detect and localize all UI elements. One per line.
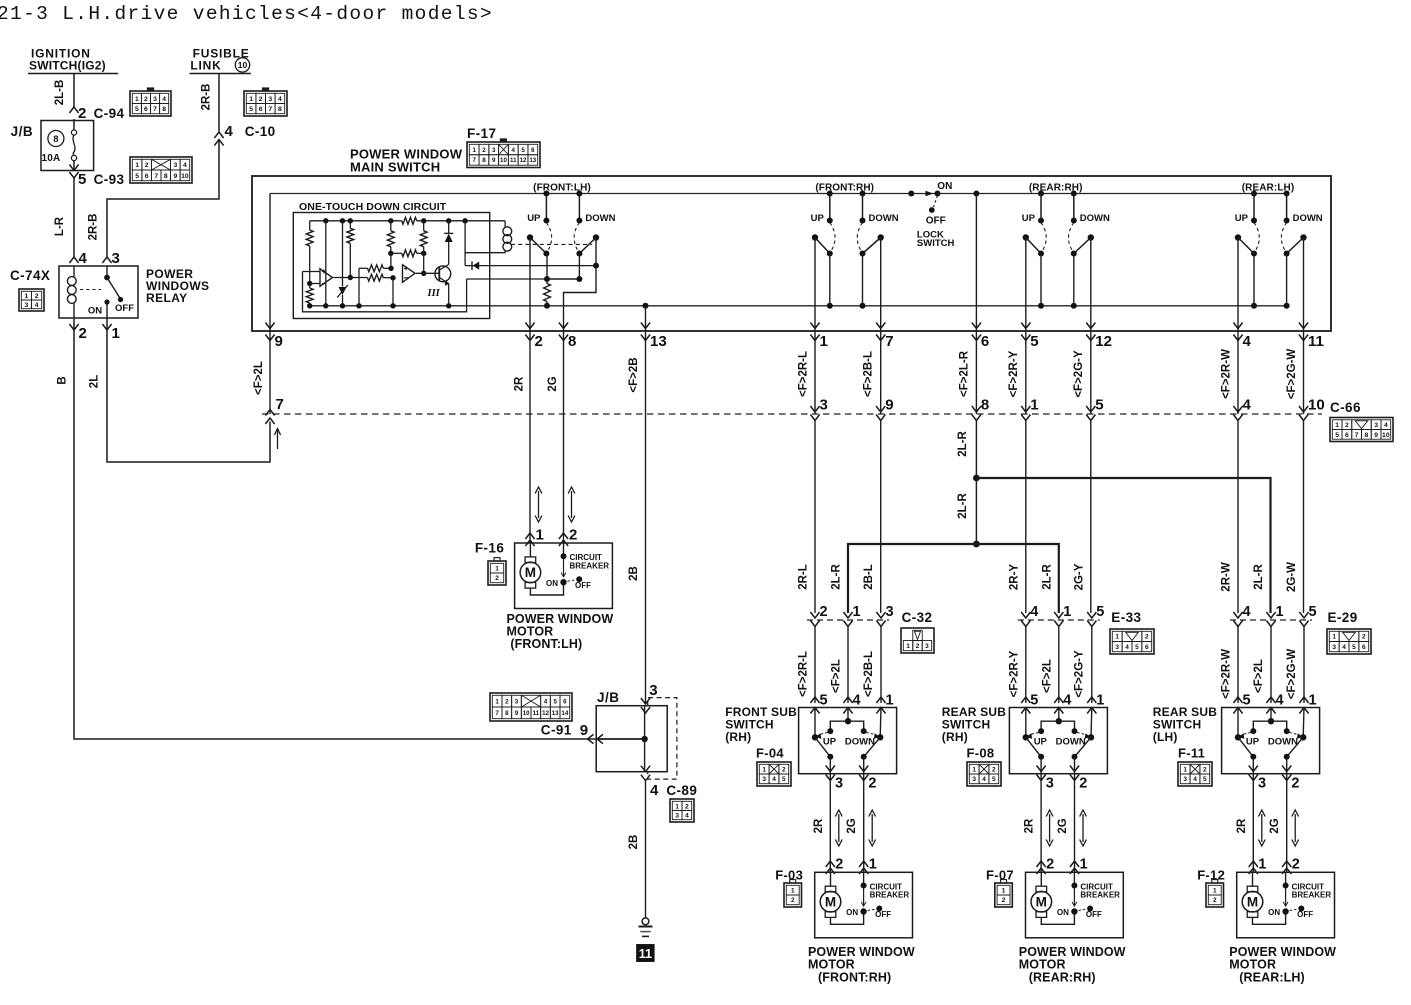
main switch pin 11 (1299, 323, 1308, 329)
svg-text:8: 8 (278, 106, 282, 113)
svg-text:11: 11 (510, 157, 517, 164)
svg-text:<F>2R-W: <F>2R-W (1221, 349, 1233, 399)
svg-text:<F>2G-Y: <F>2G-Y (1074, 650, 1086, 698)
junction block J/B (fuse box) (41, 121, 94, 171)
svg-text:ON: ON (937, 181, 952, 192)
svg-text:2L: 2L (89, 375, 101, 388)
svg-text:8: 8 (482, 157, 486, 164)
svg-text:6: 6 (531, 147, 535, 154)
svg-text:OFF: OFF (1297, 910, 1313, 919)
svg-text:9: 9 (885, 397, 893, 414)
svg-text:2L-B: 2L-B (54, 80, 66, 106)
wires sub switch to motor (front RH) (829, 785, 831, 872)
svg-text:(REAR:RH): (REAR:RH) (1029, 971, 1096, 985)
svg-text:7: 7 (153, 106, 157, 113)
connector C-66 pin 5 (1086, 406, 1095, 412)
connector F-16 pin 2 (559, 533, 568, 539)
svg-text:2: 2 (1145, 634, 1149, 641)
svg-text:5: 5 (249, 106, 253, 113)
wire segment x=815 (C-66 to door connector) (814, 421, 816, 614)
resistor R8 (right column) (423, 221, 425, 231)
svg-text:2G-Y: 2G-Y (1074, 563, 1086, 590)
resistor R6 (mid column) (390, 221, 392, 231)
svg-text:2B-L: 2B-L (863, 564, 875, 590)
feed line (lock switch bus) inside main switch (270, 193, 1287, 195)
relay coil (73, 266, 75, 277)
svg-text:4: 4 (1030, 604, 1038, 620)
svg-text:5: 5 (1095, 397, 1103, 414)
svg-text:13: 13 (650, 333, 667, 350)
svg-text:<F>2G-W: <F>2G-W (1286, 349, 1298, 400)
relay pin 2 (69, 324, 78, 330)
svg-text:<F>2L: <F>2L (253, 361, 265, 395)
svg-text:M: M (825, 895, 836, 910)
svg-text:6: 6 (1345, 432, 1349, 439)
svg-text:BREAKER: BREAKER (570, 561, 610, 570)
svg-text:OFF: OFF (875, 910, 891, 919)
svg-text:5: 5 (553, 698, 557, 705)
wire rear-RH left pivot to pin 5 (1025, 238, 1027, 332)
svg-text:2G-W: 2G-W (1286, 562, 1298, 592)
svg-text:4: 4 (1342, 644, 1346, 651)
svg-text:OFF: OFF (1086, 910, 1102, 919)
connector F-04 pin block (757, 762, 791, 786)
svg-text:E-33: E-33 (1111, 610, 1141, 625)
svg-text:ONE-TOUCH DOWN CIRCUIT: ONE-TOUCH DOWN CIRCUIT (299, 201, 447, 213)
wire segment x=848 (door connector to sub switch) (847, 627, 849, 704)
svg-text:6: 6 (563, 698, 567, 705)
svg-text:1: 1 (906, 643, 910, 650)
svg-text:2: 2 (1292, 857, 1300, 873)
svg-text:3: 3 (972, 776, 976, 783)
svg-text:1: 1 (762, 766, 766, 773)
svg-text:10: 10 (1382, 432, 1390, 439)
svg-text:1: 1 (25, 293, 29, 300)
svg-text:<F>2B-L: <F>2B-L (863, 351, 875, 397)
svg-text:3: 3 (112, 250, 120, 267)
wire L-R from J/B to relay (73, 178, 75, 257)
main switch pin 4 (1233, 323, 1242, 329)
svg-text:DOWN: DOWN (845, 737, 875, 748)
connector C-66 pin 7 (265, 410, 274, 416)
otd top rail (310, 220, 402, 222)
svg-text:2L-R: 2L-R (1253, 564, 1265, 590)
wire segment x=976.4 (main switch to C-66) (975, 331, 977, 414)
svg-text:ON: ON (88, 306, 102, 317)
main switch pin 5 (1021, 323, 1030, 329)
svg-text:2: 2 (1291, 776, 1299, 792)
wire 2L-R middle segment (975, 478, 977, 544)
svg-text:10: 10 (523, 710, 530, 717)
motor direction arrow (571, 491, 573, 518)
svg-text:1: 1 (1258, 857, 1266, 873)
svg-text:<F>2G-Y: <F>2G-Y (1073, 350, 1085, 398)
svg-text:6: 6 (1145, 644, 1149, 651)
svg-text:<F>2R-Y: <F>2R-Y (1008, 350, 1020, 397)
switch front sub switch RH (810, 697, 819, 703)
svg-text:(FRONT:RH): (FRONT:RH) (818, 971, 891, 985)
diode D1 (collector) (448, 242, 450, 265)
svg-text:11: 11 (1308, 333, 1324, 350)
svg-text:C-89: C-89 (666, 783, 697, 798)
svg-text:ON: ON (1268, 908, 1280, 917)
wire front-LH UP wiper to resistor (546, 254, 548, 280)
wire segment x=881 (door connector to sub switch) (880, 627, 882, 704)
svg-text:8: 8 (162, 106, 166, 113)
one-touch down circuit box (293, 213, 489, 319)
svg-text:2R-Y: 2R-Y (1008, 564, 1020, 591)
mechanical link dashes (coil to switch) (511, 243, 592, 245)
svg-text:2G: 2G (547, 376, 559, 391)
main switch pin 7 (876, 323, 885, 329)
resistor R9 (one-touch sense) (546, 279, 548, 284)
connector F-03 pin block (784, 883, 802, 907)
wire segment x=1304 (door connector to sub switch) (1303, 627, 1305, 704)
svg-text:DOWN: DOWN (585, 213, 615, 224)
svg-text:3: 3 (25, 302, 29, 309)
fuse 8 10A inside J/B (73, 119, 75, 130)
svg-text:UP: UP (1034, 737, 1048, 748)
svg-text:3: 3 (1332, 644, 1336, 651)
svg-text:2: 2 (259, 96, 263, 103)
junction inside J/B (641, 736, 647, 742)
wire segment x=1090.8 (main switch to C-66) (1090, 331, 1092, 414)
svg-text:2R-L: 2R-L (798, 564, 810, 590)
main switch pin 13 (641, 323, 650, 329)
connector C-66 pin 3 (810, 406, 819, 412)
junction pin13 on ground bus (643, 303, 649, 309)
svg-text:1: 1 (791, 887, 795, 894)
main switch pin 6 (972, 323, 981, 329)
svg-text:2B: 2B (628, 566, 640, 581)
relay coil L1 (one-touch) (504, 221, 506, 228)
wire U2 -input ground leg (392, 278, 394, 306)
svg-text:4: 4 (1125, 644, 1129, 651)
svg-text:3: 3 (675, 813, 679, 820)
svg-text:2: 2 (820, 604, 828, 620)
svg-text:2R: 2R (1236, 818, 1248, 833)
svg-text:F-16: F-16 (475, 541, 504, 556)
svg-text:5: 5 (521, 147, 525, 154)
svg-text:BREAKER: BREAKER (870, 891, 910, 900)
svg-text:1: 1 (886, 693, 894, 709)
svg-text:10A: 10A (42, 153, 61, 164)
svg-text:<F>2R-L: <F>2R-L (798, 651, 810, 697)
otd inner return rail (303, 272, 467, 312)
svg-text:1: 1 (536, 527, 544, 544)
relay pin 1 (102, 324, 111, 330)
svg-text:MOTOR: MOTOR (808, 958, 855, 972)
svg-text:UP: UP (1022, 213, 1036, 224)
svg-text:<F>2B: <F>2B (628, 357, 640, 392)
relay pin 4 (69, 257, 78, 263)
svg-text:DOWN: DOWN (869, 213, 899, 224)
svg-text:9: 9 (580, 722, 588, 739)
svg-text:LINK: LINK (190, 59, 221, 73)
wire 2R-B elbow to relay pin 3 (107, 140, 219, 258)
svg-text:14: 14 (561, 710, 568, 717)
wire R5 ground leg (358, 268, 360, 306)
svg-text:13: 13 (529, 157, 536, 164)
svg-text:F-08: F-08 (967, 746, 995, 761)
svg-text:2: 2 (868, 776, 876, 792)
wire front-LH right pivot to pin 8 (593, 263, 599, 269)
motor direction arrow (538, 491, 540, 518)
wire 2L-R distribution (front RH / rear RH) (848, 544, 1059, 613)
svg-text:3: 3 (1258, 776, 1266, 792)
resistor R4 (to U2 -input) (368, 274, 384, 281)
svg-text:DOWN: DOWN (1293, 213, 1323, 224)
wire op-amp U1 output (334, 277, 368, 279)
svg-text:1: 1 (472, 147, 476, 154)
svg-text:C-93: C-93 (94, 172, 125, 187)
wire lock switch to pin 6 (975, 194, 977, 332)
resistor R3 (349, 221, 351, 229)
svg-text:10: 10 (500, 157, 507, 164)
connector C-66 pin 8 (972, 406, 981, 412)
svg-text:3: 3 (1115, 644, 1119, 651)
wire 2R (pin2 to F-16) (529, 414, 531, 543)
svg-text:OFF: OFF (575, 581, 591, 590)
main switch pin 9 (265, 323, 274, 329)
direction arrow (2L feed up) (277, 429, 279, 449)
svg-text:2: 2 (535, 333, 543, 350)
connector F-16 pin block (488, 561, 506, 585)
wire front-RH wipers to ground bus (829, 254, 831, 306)
svg-text:10: 10 (181, 173, 189, 180)
resistor R-top (on top rail) (402, 217, 417, 224)
connector C-89 pin block (670, 799, 694, 822)
svg-text:(FRONT:RH): (FRONT:RH) (815, 183, 874, 194)
svg-text:<F>2L-R: <F>2L-R (959, 350, 971, 397)
wire 2R-B from fusible link (218, 74, 220, 133)
svg-text:<F>2G-W: <F>2G-W (1286, 649, 1298, 700)
svg-text:8: 8 (568, 333, 576, 350)
svg-text:2R: 2R (514, 376, 526, 391)
svg-text:SWITCH(IG2): SWITCH(IG2) (29, 59, 106, 73)
svg-text:2: 2 (505, 698, 509, 705)
svg-text:2: 2 (78, 105, 86, 122)
wire 2G (pin8 to F-16) (563, 414, 565, 543)
svg-text:BREAKER: BREAKER (1292, 891, 1332, 900)
svg-text:2: 2 (144, 96, 148, 103)
svg-text:DOWN: DOWN (1268, 737, 1298, 748)
svg-text:3: 3 (835, 776, 843, 792)
connector pin 4 of C-10 (arrows) (214, 132, 223, 138)
svg-text:4: 4 (685, 813, 689, 820)
wire op-amp U1 -input (310, 283, 320, 285)
ground reference tag 11 (637, 945, 655, 962)
zener diode ZD1 (342, 221, 344, 287)
svg-text:2: 2 (1046, 857, 1054, 873)
svg-text:F-03: F-03 (775, 868, 803, 883)
svg-text:1: 1 (495, 565, 499, 572)
svg-text:J/B: J/B (11, 124, 34, 139)
svg-text:9: 9 (1374, 432, 1378, 439)
svg-text:9: 9 (515, 710, 519, 717)
svg-text:4: 4 (1063, 693, 1071, 709)
svg-text:C-94: C-94 (94, 106, 125, 121)
svg-text:1: 1 (495, 698, 499, 705)
svg-text:ON: ON (846, 908, 858, 917)
svg-text:4: 4 (1243, 604, 1251, 620)
connector E-33 (rear RH door) (1018, 619, 1100, 621)
svg-text:L-R: L-R (54, 216, 66, 236)
svg-text:7: 7 (154, 173, 158, 180)
svg-text:2: 2 (35, 293, 39, 300)
svg-text:2: 2 (992, 766, 996, 773)
svg-text:2: 2 (482, 147, 486, 154)
svg-text:(LH): (LH) (1153, 730, 1178, 744)
svg-text:1: 1 (135, 96, 139, 103)
svg-text:C-91: C-91 (541, 723, 572, 738)
connector C-32 pin block (901, 628, 934, 653)
resistor R7 (feedback) (402, 250, 417, 257)
svg-text:(RH): (RH) (725, 730, 751, 744)
svg-text:6: 6 (259, 106, 263, 113)
svg-text:2: 2 (782, 766, 786, 773)
wire front-LH DOWN wiper jog (547, 254, 579, 280)
svg-text:F-12: F-12 (1197, 868, 1225, 883)
connector C-66 dashed line (262, 413, 1322, 415)
junction block J/B (mid) (596, 706, 667, 772)
svg-text:M: M (1036, 895, 1047, 910)
svg-text:4: 4 (982, 776, 986, 783)
svg-text:13: 13 (552, 710, 559, 717)
wire segment x=815 (door connector to sub switch) (814, 627, 816, 704)
svg-text:5: 5 (1335, 432, 1339, 439)
svg-text:8: 8 (164, 173, 168, 180)
svg-text:6: 6 (981, 333, 989, 350)
svg-text:UP: UP (823, 737, 837, 748)
svg-text:4: 4 (650, 782, 659, 799)
svg-text:4: 4 (772, 776, 776, 783)
svg-text:5: 5 (1243, 693, 1251, 709)
svg-text:2G: 2G (846, 818, 858, 833)
svg-text:5: 5 (1030, 333, 1038, 350)
connector C-93 pin block (130, 157, 192, 183)
connector F-16 pin 1 (525, 533, 534, 539)
svg-text:B: B (57, 376, 69, 384)
svg-text:1: 1 (1309, 693, 1317, 709)
svg-text:2: 2 (79, 325, 87, 342)
svg-text:ON: ON (1057, 908, 1069, 917)
svg-text:7: 7 (268, 106, 272, 113)
connector F-17 key tab (500, 139, 506, 142)
connector F-12 pin block (1206, 883, 1224, 907)
power window motor F-07 box (1026, 872, 1124, 938)
diode D2 output line (465, 265, 596, 267)
svg-text:F-11: F-11 (1178, 746, 1205, 761)
connector C-66 pin 9 (876, 406, 885, 412)
wire rear-LH left pivot to pin 4 (1237, 238, 1239, 332)
wire rear-LH right pivot to pin 11 (1303, 238, 1305, 332)
connector C-94 pin block (130, 91, 171, 116)
svg-text:4: 4 (1193, 776, 1197, 783)
svg-text:III: III (427, 288, 441, 299)
connector pin 5 of C-93 (arrows) (69, 165, 78, 171)
resistor R2 (left divider bottom) (306, 288, 313, 303)
svg-text:2: 2 (791, 897, 795, 904)
wire otd right vertical (464, 221, 466, 266)
svg-text:1: 1 (135, 162, 139, 169)
svg-text:1: 1 (1002, 887, 1006, 894)
op-amp U2 (403, 265, 416, 283)
svg-text:3: 3 (515, 698, 519, 705)
svg-text:1: 1 (1332, 634, 1336, 641)
svg-text:11: 11 (533, 710, 540, 717)
svg-text:2: 2 (569, 527, 577, 544)
svg-text:1: 1 (853, 604, 861, 620)
main switch pin 8 (559, 323, 568, 329)
connector C-66 pin 10 (1299, 406, 1308, 412)
wire segment x=563.5 (main switch to C-66) (563, 331, 565, 414)
wire rear-RH right pivot to pin 12 (1090, 238, 1092, 332)
otd rail junctions (323, 218, 328, 223)
svg-text:3: 3 (925, 643, 929, 650)
svg-text:2G: 2G (1057, 818, 1069, 833)
svg-text:UP: UP (1235, 213, 1249, 224)
svg-text:2R-W: 2R-W (1221, 562, 1233, 592)
svg-text:<F>2L: <F>2L (1041, 659, 1053, 693)
relay box (power windows relay) (59, 266, 138, 318)
wire pin9 vertical (left inner edge) (269, 194, 271, 332)
svg-text:12: 12 (542, 710, 549, 717)
wire 2L-R distribution (to rear LH) (976, 478, 1270, 613)
svg-text:2R: 2R (813, 818, 825, 833)
connector C-10 pin block (244, 91, 287, 116)
svg-text:7: 7 (1355, 432, 1359, 439)
wire rear-LH wipers to ground bus (1253, 254, 1255, 306)
svg-text:9: 9 (275, 333, 283, 350)
svg-text:1: 1 (1063, 604, 1071, 620)
svg-text:2: 2 (1079, 776, 1087, 792)
svg-text:4: 4 (225, 123, 234, 140)
svg-text:1: 1 (1030, 397, 1038, 414)
svg-text:4: 4 (35, 302, 39, 309)
otd output line (down signal) (467, 278, 547, 280)
svg-text:2: 2 (835, 857, 843, 873)
svg-text:8: 8 (53, 134, 58, 145)
ground bus line inside main switch (310, 305, 1287, 307)
wire segment x=1238 (main switch to C-66) (1237, 331, 1239, 414)
wire pin13 (2B) inside box (645, 306, 647, 331)
svg-text:3: 3 (153, 96, 157, 103)
power window motor F-12 box (1237, 872, 1335, 938)
svg-text:6: 6 (145, 173, 149, 180)
connector C-66 pin 4 (1233, 406, 1242, 412)
wire segment x=815 (main switch to C-66) (814, 331, 816, 414)
svg-text:OFF: OFF (926, 216, 946, 227)
wire segment x=1058.8 (door connector to sub switch) (1058, 627, 1060, 704)
svg-text:3: 3 (649, 682, 657, 699)
svg-text:11: 11 (639, 947, 652, 961)
lock switch (908, 191, 914, 197)
svg-text:5: 5 (135, 173, 139, 180)
svg-text:4: 4 (79, 250, 88, 267)
svg-text:2B: 2B (628, 835, 640, 850)
svg-text:7: 7 (885, 333, 893, 350)
svg-text:1: 1 (1335, 422, 1339, 429)
svg-text:2G: 2G (1269, 818, 1281, 833)
svg-text:3: 3 (886, 604, 894, 620)
svg-text:M: M (1247, 895, 1258, 910)
connector C-32 (front RH door) (807, 619, 889, 621)
svg-text:2: 2 (1002, 897, 1006, 904)
svg-text:2: 2 (145, 162, 149, 169)
svg-text:10: 10 (238, 60, 248, 70)
svg-text:1: 1 (1276, 604, 1284, 620)
